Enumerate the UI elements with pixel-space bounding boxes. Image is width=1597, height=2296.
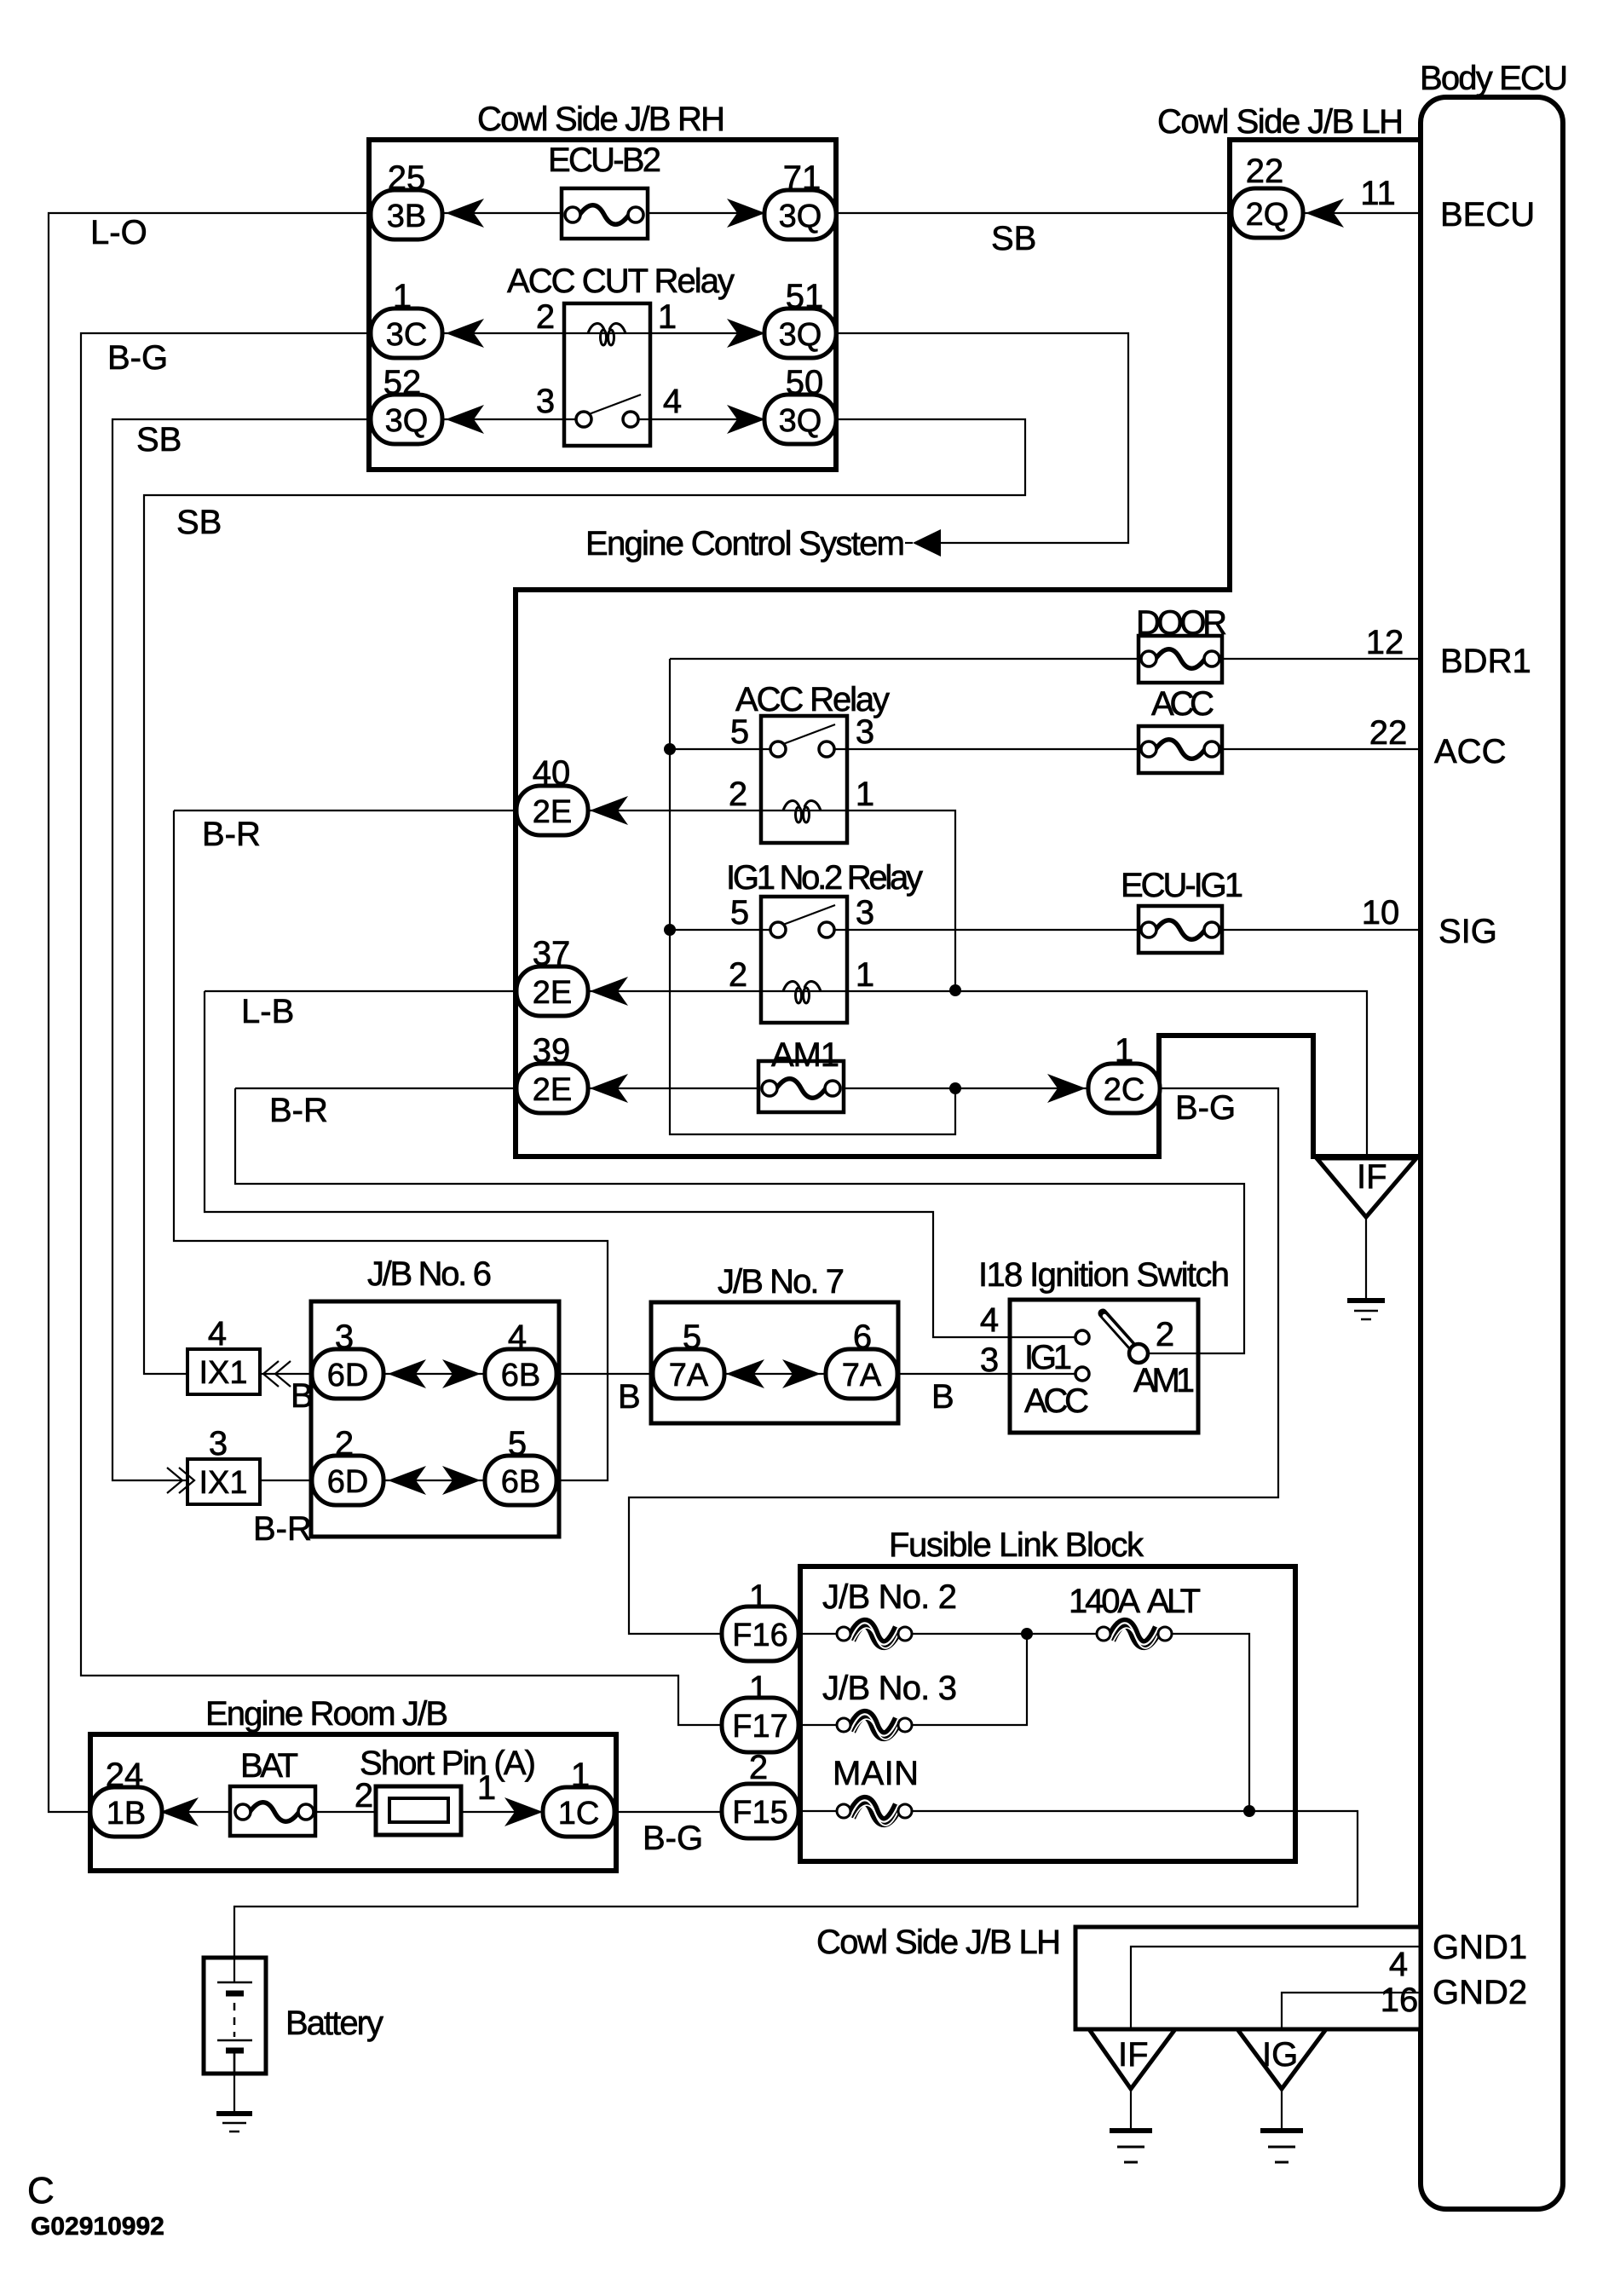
svg-text:4: 4 (663, 383, 682, 420)
svg-text:Cowl Side J/B RH: Cowl Side J/B RH (477, 101, 725, 138)
chevron into 1B (160, 1797, 199, 1826)
connector 2E pin40 (516, 786, 588, 835)
svg-text:2C: 2C (1104, 1072, 1145, 1108)
svg-text:40: 40 (533, 754, 571, 792)
svg-text:3Q: 3Q (779, 317, 822, 353)
svg-text:MAIN: MAIN (833, 1755, 919, 1792)
svg-text:I18 Ignition Switch: I18 Ignition Switch (978, 1256, 1230, 1294)
svg-text:4: 4 (208, 1315, 227, 1353)
svg-text:2: 2 (536, 298, 555, 336)
svg-text:3Q: 3Q (385, 403, 429, 439)
connector 6D pin3 (312, 1349, 383, 1399)
chevron pair J/B6 row2 (388, 1466, 426, 1495)
coil ACC CUT relay (588, 324, 626, 345)
svg-text:GND1: GND1 (1433, 1929, 1527, 1966)
svg-text:5: 5 (730, 894, 749, 932)
Body ECU U1 box (1421, 97, 1563, 2209)
svg-text:4: 4 (508, 1318, 527, 1356)
svg-text:1: 1 (856, 776, 874, 813)
svg-text:2: 2 (729, 776, 747, 813)
wire IG1 relay coil row from 2E-37 and out to IF ground (205, 991, 1367, 1157)
wire IG1 relay contact row to ECU-IG1 fuse to SIG (670, 929, 1421, 931)
connector 3Q pin50 (764, 395, 836, 444)
svg-text:Short Pin (A): Short Pin (A) (360, 1745, 536, 1782)
svg-text:4: 4 (980, 1301, 999, 1339)
svg-text:IG1: IG1 (1024, 1339, 1072, 1376)
fusible link J/B No.2 element (837, 1623, 912, 1648)
coil IG1 No.2 relay (783, 982, 821, 1003)
wire GND2 to IG lower triangle (1282, 1993, 1421, 2029)
connector 2E pin39 (516, 1064, 588, 1113)
switch contact ACC CUT relay (576, 395, 641, 427)
svg-text:Fusible Link Block: Fusible Link Block (889, 1526, 1144, 1564)
svg-text:5: 5 (683, 1318, 701, 1356)
chevron into 2E-40 (590, 796, 628, 825)
junction dot IG1 relay feed (664, 924, 676, 936)
fuse ECU-B2 element (565, 205, 643, 225)
chevron into 1C (504, 1797, 543, 1826)
svg-text:3: 3 (536, 383, 555, 420)
svg-text:BDR1: BDR1 (1440, 643, 1531, 680)
Cowl Side J/B LH upper block outline (516, 140, 1421, 1157)
svg-text:2: 2 (1156, 1316, 1174, 1353)
connector F17 pin1 (722, 1698, 798, 1752)
svg-text:IG: IG (1262, 2036, 1298, 2074)
open chevrons out of IX1 pin4 (263, 1361, 291, 1387)
connector F15 pin2 (722, 1784, 798, 1838)
svg-text:C: C (27, 2170, 55, 2212)
svg-text:Engine Room J/B: Engine Room J/B (205, 1695, 448, 1733)
svg-text:7A: 7A (669, 1358, 709, 1393)
ground symbol IG lower (1260, 2131, 1303, 2162)
svg-text:7A: 7A (842, 1358, 882, 1393)
connector 3B pin25 (371, 190, 442, 239)
svg-text:22: 22 (1369, 714, 1408, 752)
fuse ACC box (1139, 726, 1222, 773)
wire J/B6 row1 B to J/B7 to ignition ACC pin 3 (260, 1373, 1075, 1375)
svg-text:1: 1 (477, 1769, 496, 1807)
svg-text:IG1 No.2 Relay: IG1 No.2 Relay (726, 859, 923, 897)
svg-text:2E: 2E (533, 1072, 572, 1108)
Short Pin (A) outer box (376, 1786, 461, 1835)
svg-text:J/B No. 3: J/B No. 3 (822, 1670, 957, 1707)
svg-text:3: 3 (209, 1425, 228, 1462)
svg-text:IX1: IX1 (199, 1465, 247, 1501)
switch contact ACC relay (770, 724, 835, 757)
svg-text:J/B No. 7: J/B No. 7 (718, 1263, 845, 1301)
wire B-G row from 3C left then down to F17 (81, 333, 760, 1725)
connector 7A pin6 (826, 1349, 897, 1399)
fuse AM1 element (762, 1079, 840, 1099)
connector 6B pin5 (485, 1456, 556, 1505)
fusible link J/B No.3 element (837, 1714, 912, 1739)
connector 1C pin1 (543, 1787, 614, 1837)
wire MAIN link row to battery feed (234, 1811, 1358, 1982)
chevron into 3Q-52 (446, 405, 484, 434)
svg-text:IF: IF (1118, 2036, 1149, 2074)
chevron into 2C (1047, 1074, 1086, 1103)
wire stubs ACC CUT relay contacts (564, 418, 650, 420)
open chevrons into IX1 pin3 (167, 1468, 194, 1493)
svg-text:B-G: B-G (107, 339, 168, 377)
svg-text:140A: 140A (1069, 1583, 1140, 1620)
svg-text:71: 71 (783, 159, 822, 197)
svg-text:B-R: B-R (202, 816, 261, 853)
svg-text:J/B No. 6: J/B No. 6 (367, 1255, 492, 1293)
svg-text:B-G: B-G (1175, 1089, 1236, 1127)
fuse DOOR element (1141, 649, 1219, 669)
connector 6D pin2 (312, 1456, 383, 1505)
I18 Ignition Switch box (1010, 1300, 1198, 1433)
connector 2C pin1 (1088, 1064, 1160, 1113)
svg-text:J/B No. 2: J/B No. 2 (822, 1578, 957, 1616)
fuse ACC element (1141, 740, 1219, 759)
ground symbol below battery (216, 2114, 252, 2132)
svg-text:F15: F15 (732, 1795, 787, 1831)
chevron pair J/B7 (726, 1359, 764, 1388)
svg-text:3: 3 (856, 894, 874, 932)
wire feed vertical from DOOR row down to AM1 net (670, 659, 955, 1134)
wire relay out 50 wrap-around SB to IX1 pin4 row (144, 419, 1025, 1374)
svg-text:1: 1 (749, 1670, 768, 1707)
fuse AM1 box (758, 1061, 844, 1112)
wire battery negative to ground (233, 2049, 235, 2114)
svg-text:B: B (618, 1378, 641, 1416)
svg-text:39: 39 (533, 1032, 571, 1070)
svg-text:GND2: GND2 (1433, 1974, 1527, 2011)
svg-text:3B: 3B (387, 199, 426, 234)
coil ACC relay (783, 801, 821, 822)
wire L-O row from 3B to left edge then down to 1B (49, 213, 562, 1812)
svg-text:37: 37 (533, 935, 571, 972)
connector F16 pin1 (722, 1607, 798, 1661)
ground symbol IF lower (1110, 2131, 1152, 2162)
svg-text:BAT: BAT (240, 1747, 298, 1785)
svg-text:2Q: 2Q (1246, 197, 1289, 233)
connector 6B pin4 (485, 1349, 556, 1399)
junction dot J/B No.2 to J/B No.3 (1021, 1628, 1033, 1640)
connector 3Q pin71 (764, 190, 836, 239)
connector 3Q pin51 (764, 309, 836, 358)
svg-text:ECU-IG1: ECU-IG1 (1121, 867, 1243, 904)
chevron pair J/B6 row1 (388, 1359, 426, 1388)
J/B No. 7 box (651, 1302, 898, 1423)
svg-text:AM1: AM1 (1133, 1362, 1195, 1399)
svg-text:3: 3 (335, 1318, 354, 1356)
junction dot MAIN to ALT (1243, 1805, 1255, 1817)
svg-text:1: 1 (856, 956, 874, 994)
fuse ECU-B2 box (562, 188, 648, 239)
svg-text:10: 10 (1362, 894, 1400, 932)
svg-text:16: 16 (1381, 1982, 1419, 2019)
svg-text:2E: 2E (533, 975, 572, 1011)
fuse ECU-IG1 element (1141, 920, 1219, 940)
svg-text:2E: 2E (533, 794, 572, 830)
svg-text:B-R: B-R (269, 1092, 328, 1129)
connector IX1 pin4 box (187, 1349, 260, 1394)
fuse BAT element (235, 1803, 314, 1822)
connector 3C pin1 (371, 309, 442, 358)
svg-text:5: 5 (730, 713, 749, 751)
wire stubs IG1 relay contacts (761, 929, 847, 931)
svg-text:SIG: SIG (1438, 913, 1497, 950)
chevron out to 3Q-71 (727, 199, 765, 228)
svg-text:IF: IF (1357, 1158, 1387, 1196)
fuse BAT box (230, 1786, 315, 1836)
svg-text:BECU: BECU (1440, 196, 1535, 234)
wire ACC relay coil row from 2E-40 (174, 811, 955, 990)
svg-text:6D: 6D (327, 1464, 369, 1500)
fusible link 140A ALT element (1097, 1623, 1172, 1648)
svg-text:6D: 6D (327, 1358, 369, 1393)
svg-text:SB: SB (136, 421, 182, 459)
arrow to Engine Control System (913, 529, 941, 557)
svg-text:Battery: Battery (285, 2005, 383, 2042)
svg-text:25: 25 (388, 159, 426, 197)
svg-text:1C: 1C (558, 1796, 600, 1832)
chevron into 3B (446, 199, 484, 228)
ACC Relay box (761, 716, 847, 843)
svg-text:ACC: ACC (1024, 1382, 1089, 1420)
svg-text:12: 12 (1366, 624, 1404, 661)
svg-text:F17: F17 (732, 1709, 787, 1745)
junction dot ACC relay feed (664, 743, 676, 755)
wire L-B 37 back run to ignition switch pin 4 (205, 991, 1077, 1337)
wire ACC relay coil inside (761, 810, 847, 811)
wire SB row from 3Q-52 left then down to IX1 pin3 (112, 419, 564, 1480)
wire DOOR fuse row to BDR1 (670, 658, 1421, 660)
Fusible Link Block box (800, 1566, 1295, 1861)
svg-text:Body ECU: Body ECU (1420, 60, 1568, 97)
switch contact IG1 No.2 relay (770, 905, 835, 937)
battery cell plates (217, 1982, 252, 2074)
svg-text:B-R: B-R (253, 1510, 312, 1548)
connector 2E pin37 (516, 966, 588, 1016)
svg-text:G02910992: G02910992 (31, 2212, 164, 2241)
svg-text:Engine Control System: Engine Control System (585, 525, 905, 562)
svg-text:4: 4 (1389, 1946, 1408, 1983)
ignition switch lever and contacts (1075, 1313, 1148, 1381)
ground triangle IG lower (1237, 2029, 1326, 2089)
svg-text:3: 3 (980, 1341, 999, 1379)
J/B No. 6 box (311, 1301, 559, 1537)
Cowl Side J/B LH lower box (1075, 1927, 1421, 2029)
svg-text:DOOR: DOOR (1136, 604, 1227, 642)
ground symbol IF upper (1347, 1301, 1385, 1319)
wire IF upper triangle apex to ground (1365, 1217, 1367, 1301)
chevron into 2E-37 (590, 977, 628, 1006)
wire ECU-B2 to 3Q-71 to 2Q to BECU pin 11 (648, 212, 1421, 214)
connector 1B pin24 (90, 1787, 162, 1837)
svg-text:51: 51 (786, 278, 824, 315)
wire IF lower triangle apex to ground (1130, 2089, 1132, 2131)
svg-text:1: 1 (571, 1757, 590, 1794)
svg-text:ACC CUT Relay: ACC CUT Relay (507, 262, 735, 300)
Cowl Side J/B RH box (369, 140, 836, 470)
svg-text:F16: F16 (732, 1618, 787, 1653)
svg-text:B: B (931, 1378, 954, 1416)
junction dot AM1 row tee (949, 1082, 961, 1094)
connector 2Q pin22 (1231, 188, 1303, 238)
svg-text:22: 22 (1246, 153, 1284, 190)
svg-text:3C: 3C (386, 317, 428, 353)
wire IG lower triangle apex to ground (1281, 2089, 1283, 2131)
ground triangle IF lower (1089, 2029, 1175, 2089)
wire B-G from 2C down to F16 (629, 1088, 1278, 1634)
svg-text:SB: SB (991, 220, 1036, 257)
wire B-R 39 back run to ignition switch AM1 pin 2 (235, 1088, 1244, 1353)
svg-text:3Q: 3Q (779, 403, 822, 439)
svg-text:6B: 6B (501, 1358, 540, 1393)
ACC CUT Relay box (564, 303, 650, 446)
chevron into 3C (446, 319, 484, 348)
wire Engine Room J/B row 1B to BAT to short pin to 1C to F15 (130, 1811, 760, 1813)
fuse ECU-IG1 box (1139, 906, 1222, 953)
chevron out to 3Q-50 (727, 405, 765, 434)
svg-text:ALT: ALT (1147, 1583, 1201, 1620)
svg-text:L-B: L-B (241, 993, 294, 1030)
wire J/B No.2 link row to 140A ALT (760, 1634, 1249, 1811)
IG1 No.2 Relay box (761, 897, 847, 1023)
svg-text:SB: SB (176, 504, 222, 541)
svg-text:1: 1 (749, 1578, 768, 1616)
ground triangle IF upper (1317, 1158, 1416, 1217)
svg-text:B: B (291, 1377, 314, 1415)
svg-text:ACC: ACC (1151, 685, 1214, 723)
svg-text:5: 5 (508, 1425, 527, 1462)
svg-text:1: 1 (658, 298, 677, 336)
wire stubs ACC relay contacts (761, 748, 847, 750)
wire GND1 to IF lower triangle (1131, 1947, 1421, 2029)
svg-text:2: 2 (355, 1777, 373, 1814)
svg-text:24: 24 (106, 1757, 144, 1794)
wire AM1 fuse row from 2E-39 to 2C (235, 1087, 1124, 1089)
svg-text:3Q: 3Q (779, 199, 822, 234)
svg-text:50: 50 (786, 364, 824, 401)
wire relay out 51 to Engine Control System (650, 333, 1128, 543)
Battery box (204, 1958, 266, 2074)
wire B-R 40 back run to J/B6 6B-5 (174, 811, 608, 1480)
svg-text:11: 11 (1360, 175, 1396, 212)
svg-text:2: 2 (729, 956, 747, 994)
fusible link MAIN element (837, 1800, 912, 1826)
svg-text:Cowl Side J/B LH: Cowl Side J/B LH (816, 1924, 1061, 1961)
svg-text:IX1: IX1 (199, 1355, 247, 1391)
svg-text:1B: 1B (107, 1796, 146, 1832)
fuse DOOR box (1139, 636, 1222, 683)
svg-text:AM1: AM1 (771, 1036, 839, 1074)
connector 7A pin5 (653, 1349, 724, 1399)
junction dot relay coils to IF ground (949, 984, 961, 996)
svg-text:L-O: L-O (90, 214, 147, 251)
svg-text:2: 2 (335, 1425, 354, 1462)
svg-text:1: 1 (393, 278, 412, 315)
svg-text:Cowl Side J/B LH: Cowl Side J/B LH (1157, 103, 1404, 141)
svg-text:B-G: B-G (643, 1820, 703, 1857)
chevron out to 3Q-51 (727, 319, 765, 348)
wire IG1 relay coil inside (761, 990, 847, 992)
chevron into 2E-39 (590, 1074, 628, 1103)
svg-text:1: 1 (1115, 1032, 1133, 1070)
wire J/B6 row2 (260, 1480, 521, 1481)
svg-text:52: 52 (383, 364, 422, 401)
connector IX1 pin3 box (187, 1459, 260, 1504)
wire ACC relay contact row to ACC fuse to pin 22 (670, 748, 1421, 750)
svg-text:6: 6 (853, 1318, 872, 1356)
svg-text:ACC: ACC (1434, 733, 1506, 770)
wire J/B No.3 link row up to ALT junction (760, 1634, 1027, 1725)
Engine Room J/B box (90, 1734, 616, 1871)
Short Pin (A) inner bar (389, 1798, 448, 1822)
connector 3Q pin52 (371, 395, 442, 444)
svg-text:2: 2 (749, 1749, 768, 1786)
svg-text:3: 3 (856, 713, 874, 751)
svg-text:ECU-B2: ECU-B2 (548, 141, 661, 179)
svg-text:6B: 6B (501, 1464, 540, 1500)
chevron into 2Q (1306, 199, 1344, 228)
wire ACC CUT relay coil row inside (564, 332, 650, 334)
